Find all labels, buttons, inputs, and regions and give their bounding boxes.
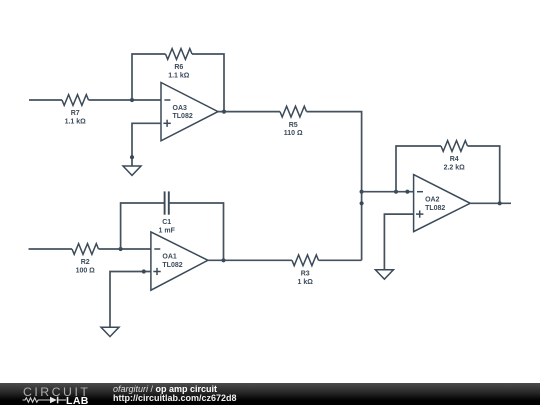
wire: [99, 248, 151, 250]
resistor R2: [72, 244, 99, 275]
wire: [396, 146, 441, 192]
node C2 (summing net lower): [360, 201, 364, 205]
wire: [218, 111, 280, 113]
svg-text:LAB: LAB: [66, 395, 89, 405]
svg-text:C1: C1: [162, 219, 171, 226]
svg-text:R4: R4: [450, 156, 459, 163]
wire: [319, 259, 362, 261]
wire: [89, 99, 162, 101]
wire: [384, 214, 413, 270]
wire: [192, 54, 224, 112]
wire: [169, 203, 224, 260]
svg-text:R3: R3: [301, 271, 310, 278]
resistor R6: [166, 49, 193, 80]
resistor R7: [62, 95, 89, 126]
wire: [29, 99, 62, 101]
resistor R4: [441, 141, 468, 172]
svg-text:TL082: TL082: [173, 113, 193, 120]
ground (OA2 non-inverting input): [375, 270, 393, 279]
svg-text:2.2 kΩ: 2.2 kΩ: [444, 165, 466, 172]
capacitor C1: [159, 191, 176, 234]
svg-text:TL082: TL082: [425, 205, 445, 212]
ground (OA3 non-inverting input): [123, 166, 141, 175]
svg-text:110 Ω: 110 Ω: [284, 130, 303, 137]
svg-text:R7: R7: [71, 110, 80, 117]
node OA2 inverting input: [405, 190, 409, 194]
ground (OA1 non-inverting input): [101, 327, 119, 336]
wire: [362, 191, 414, 193]
node OA1 non-inverting lead: [142, 269, 146, 273]
footer bar: [0, 383, 540, 405]
wire: [121, 203, 165, 249]
svg-text:1 kΩ: 1 kΩ: [298, 279, 314, 286]
node A (R7/R6/OA3- junction): [130, 98, 134, 102]
svg-text:R5: R5: [289, 122, 298, 129]
wire: [470, 202, 511, 204]
node OA2 output: [498, 201, 502, 205]
svg-text:R6: R6: [174, 64, 183, 71]
svg-text:1.1 kΩ: 1.1 kΩ: [168, 73, 190, 80]
wire: [29, 248, 73, 250]
svg-text:OA1: OA1: [162, 254, 177, 261]
footer caption text: [113, 385, 237, 404]
op-amp OA2: [414, 175, 471, 232]
node OA3 output: [222, 110, 226, 114]
svg-text:1 mF: 1 mF: [159, 227, 176, 234]
node R4 feedback tap: [394, 190, 398, 194]
wire: [468, 146, 500, 203]
svg-text:OA3: OA3: [173, 105, 188, 112]
node OA1 output: [221, 258, 225, 262]
wire: [132, 123, 161, 166]
svg-text:100 Ω: 100 Ω: [76, 268, 96, 275]
wire: [307, 112, 362, 261]
svg-text:TL082: TL082: [162, 262, 182, 269]
wire: [208, 259, 292, 261]
node C (summing net upper): [360, 190, 364, 194]
wire: [110, 272, 151, 328]
node B (R2/C1/OA1- junction): [119, 247, 123, 251]
svg-text:R2: R2: [81, 259, 90, 266]
svg-text:1.1 kΩ: 1.1 kΩ: [65, 119, 87, 126]
op-amp OA3: [161, 83, 218, 141]
resistor R3: [292, 255, 319, 286]
op-amp OA1: [151, 232, 208, 290]
node OA3 ground lead: [130, 155, 134, 159]
CircuitLab logo: [0, 383, 100, 405]
resistor R5: [280, 106, 307, 137]
wire: [132, 54, 166, 100]
svg-text:OA2: OA2: [425, 197, 440, 204]
